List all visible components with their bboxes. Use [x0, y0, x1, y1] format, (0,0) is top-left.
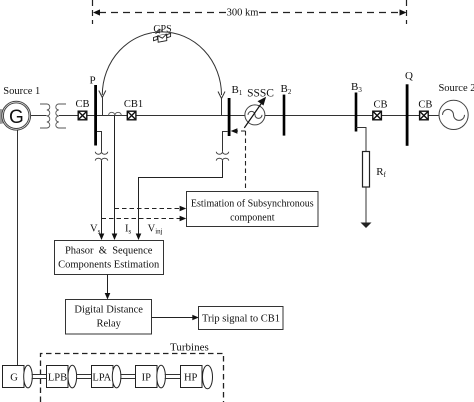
svg-text:Relay: Relay [96, 319, 121, 330]
svg-text:B3: B3 [351, 81, 362, 94]
svg-text:LPB: LPB [48, 373, 67, 384]
svg-text:CB: CB [373, 100, 387, 111]
svg-text:IP: IP [142, 373, 151, 384]
svg-text:Components Estimation: Components Estimation [58, 260, 160, 271]
svg-text:Source 1: Source 1 [3, 86, 40, 97]
svg-text:Is: Is [125, 224, 132, 236]
svg-text:Digital Distance: Digital Distance [74, 305, 143, 316]
svg-text:HP: HP [184, 373, 198, 384]
svg-text:B1: B1 [232, 84, 243, 97]
svg-text:SSSC: SSSC [247, 88, 274, 100]
svg-text:component: component [230, 213, 275, 224]
svg-text:Source 2: Source 2 [438, 83, 474, 94]
svg-text:Turbines: Turbines [170, 342, 209, 354]
svg-text:Rf: Rf [376, 166, 386, 179]
svg-text:Trip signal to CB1: Trip signal to CB1 [202, 314, 280, 325]
svg-text:Phasor & Sequence: Phasor & Sequence [65, 246, 153, 257]
svg-text:Vinj: Vinj [148, 224, 163, 236]
svg-text:CB1: CB1 [124, 99, 143, 110]
svg-text:300 km: 300 km [227, 7, 259, 18]
svg-text:Vs: Vs [90, 224, 101, 236]
svg-text:CB: CB [418, 100, 432, 111]
svg-text:G: G [9, 107, 24, 128]
svg-text:LPA: LPA [92, 373, 111, 384]
svg-text:G: G [10, 373, 18, 384]
svg-text:B2: B2 [281, 83, 292, 96]
svg-text:Q: Q [405, 70, 413, 82]
svg-text:CB: CB [75, 99, 89, 110]
svg-text:Estimation of Subsynchronous: Estimation of Subsynchronous [191, 199, 314, 210]
svg-text:P: P [89, 75, 95, 87]
